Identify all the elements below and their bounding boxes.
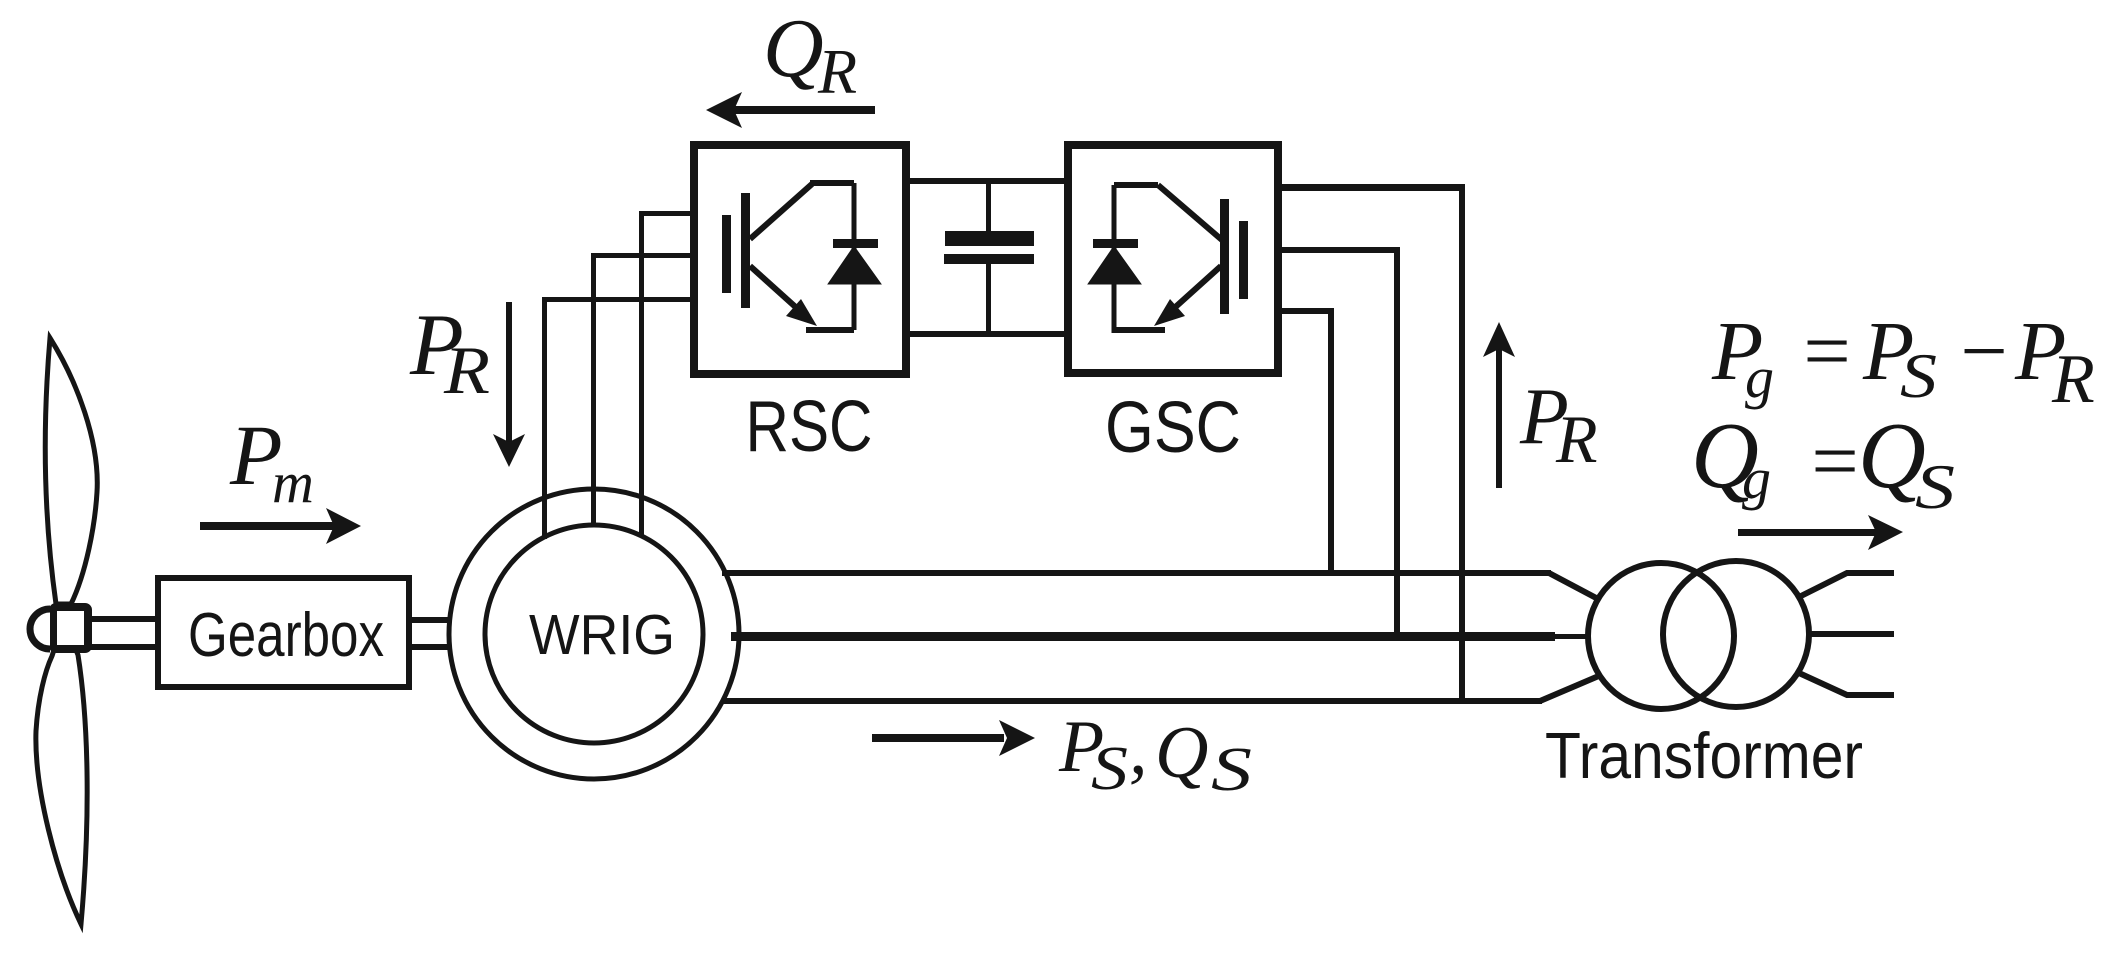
wire stator phase A diagonal to transformer bbox=[1549, 573, 1600, 600]
arrow QR left bbox=[706, 92, 875, 128]
svg-text:m: m bbox=[272, 450, 314, 515]
rotor wire phase 1 horizontal bbox=[542, 297, 693, 302]
transformer secondary circle bbox=[1663, 561, 1809, 707]
svg-text:R: R bbox=[443, 332, 490, 408]
svg-text:WRIG: WRIG bbox=[529, 603, 675, 667]
gearbox box bbox=[158, 578, 409, 687]
svg-text:,: , bbox=[1129, 708, 1148, 790]
arrow Pm bbox=[200, 508, 361, 544]
svg-text:g: g bbox=[1742, 446, 1771, 511]
wire GSC output phase A horizontal bbox=[1278, 184, 1465, 191]
capacitor DC link plate top bbox=[945, 231, 1034, 246]
transformer primary circle bbox=[1588, 563, 1734, 709]
svg-text:=: = bbox=[1798, 305, 1855, 398]
svg-text:S: S bbox=[1915, 451, 1955, 522]
svg-text:Gearbox: Gearbox bbox=[188, 601, 384, 670]
wire transformer output top diagonal bbox=[1799, 573, 1894, 597]
diode D-RSC bbox=[830, 239, 879, 283]
generator WRIG outer circle bbox=[449, 489, 739, 779]
rotor wire phase 1 vertical bbox=[542, 299, 547, 539]
turbine nose cone bbox=[30, 609, 50, 649]
arrow grid output bbox=[1738, 515, 1903, 550]
svg-text:Q: Q bbox=[1155, 712, 1208, 794]
transistor Q-RSC IGBT bbox=[722, 183, 854, 330]
wire GSC output phase B horizontal bbox=[1278, 247, 1400, 253]
generator WRIG inner circle bbox=[485, 525, 703, 743]
wire DC link top bbox=[906, 178, 1066, 184]
svg-text:S: S bbox=[1900, 340, 1937, 411]
label PS QS bbox=[1058, 706, 1252, 804]
wire stator phase A (top) bbox=[722, 570, 1551, 576]
rotor wire phase 2 horizontal bbox=[591, 253, 693, 258]
wire transformer output middle bbox=[1809, 631, 1894, 637]
shaft gearbox to WRIG (lower line) bbox=[409, 644, 489, 650]
arrow PS QS bbox=[872, 720, 1035, 756]
diode D-GSC bbox=[1090, 185, 1139, 333]
wire GSC output phase C vertical bbox=[1328, 308, 1334, 573]
arrow PR up bbox=[1483, 322, 1515, 488]
arrow PR down bbox=[493, 302, 525, 467]
wind turbine upper blade bbox=[45, 338, 97, 604]
wire stator phase B thin lead bbox=[1553, 634, 1591, 639]
svg-text:−: − bbox=[1955, 305, 2012, 398]
wire stator phase C (bottom) bbox=[722, 698, 1542, 704]
svg-text:R: R bbox=[1555, 401, 1598, 477]
wind turbine lower blade bbox=[36, 633, 87, 924]
svg-text:Transformer: Transformer bbox=[1545, 719, 1863, 792]
svg-text:S: S bbox=[1211, 736, 1252, 804]
shaft hub to gearbox (lower line) bbox=[90, 644, 158, 650]
svg-text:Q: Q bbox=[763, 2, 824, 95]
wire stator phase C diagonal to transformer bbox=[1540, 675, 1601, 701]
capacitor DC link plate bottom bbox=[944, 254, 1034, 264]
shaft gearbox to WRIG (upper line) bbox=[409, 617, 489, 623]
label formula Qg = QS bbox=[1691, 404, 1955, 522]
converter GSC box bbox=[1068, 145, 1278, 373]
capacitor DC link lead bottom bbox=[986, 264, 991, 334]
label formula Pg = PS - PR bbox=[1711, 305, 2095, 418]
shaft hub to gearbox (upper line) bbox=[90, 616, 158, 622]
wire GSC output phase A vertical bbox=[1459, 184, 1465, 703]
svg-text:g: g bbox=[1745, 345, 1774, 410]
svg-text:GSC: GSC bbox=[1105, 388, 1241, 468]
svg-text:S: S bbox=[1091, 735, 1128, 803]
wire stator phase B (middle thick) bbox=[731, 632, 1555, 641]
converter RSC box bbox=[694, 145, 906, 374]
rotor wire phase 2 vertical bbox=[591, 255, 596, 527]
rotor wire phase 3 horizontal bbox=[639, 211, 693, 216]
capacitor DC link lead top bbox=[986, 181, 991, 233]
wire transformer output bottom diagonal bbox=[1799, 673, 1894, 695]
svg-text:=: = bbox=[1806, 415, 1863, 508]
wire DC link bottom bbox=[906, 331, 1066, 337]
svg-text:R: R bbox=[817, 36, 857, 107]
turbine hub bbox=[53, 607, 88, 649]
wire GSC output phase C horizontal bbox=[1278, 308, 1334, 314]
svg-text:R: R bbox=[2051, 341, 2095, 418]
wire GSC output phase B vertical bbox=[1394, 247, 1400, 637]
rotor wire phase 3 vertical bbox=[639, 211, 644, 537]
transistor Q-GSC IGBT bbox=[1114, 185, 1248, 330]
svg-text:RSC: RSC bbox=[746, 387, 873, 467]
